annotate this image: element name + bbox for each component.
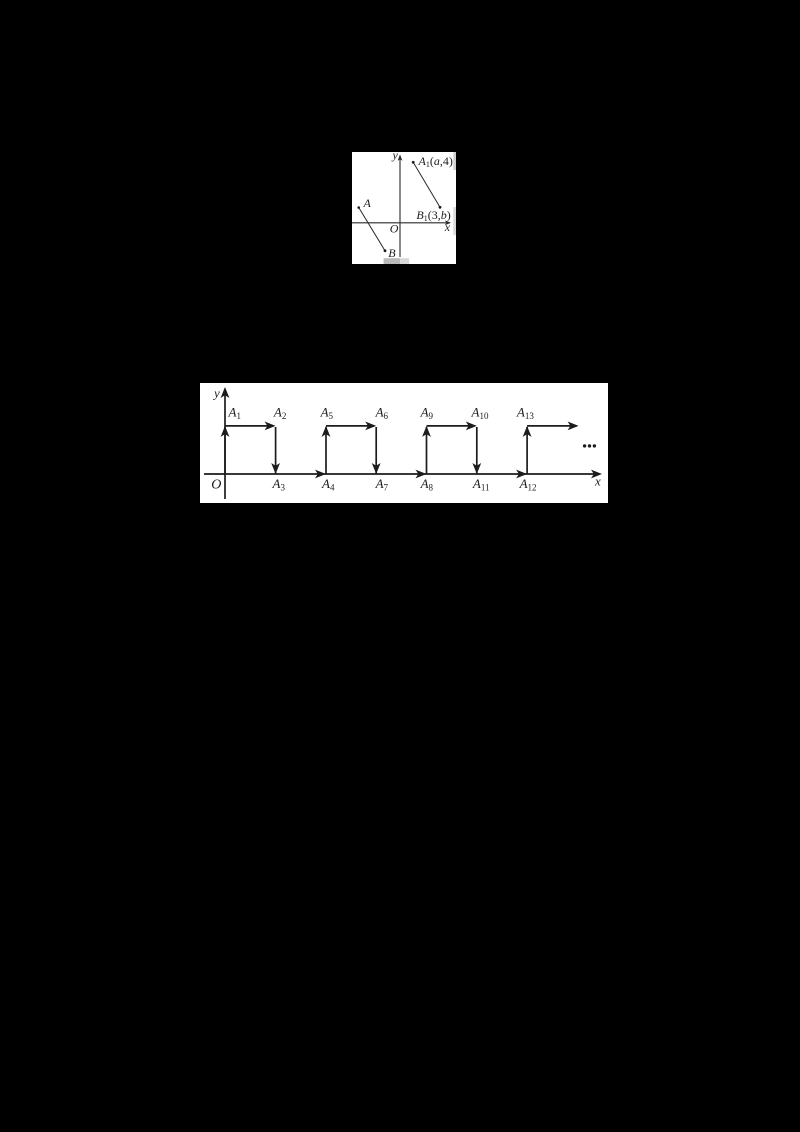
svg-text:O: O <box>390 221 399 235</box>
svg-text:A7: A7 <box>375 476 389 493</box>
svg-text:A13: A13 <box>516 405 534 422</box>
svg-text:x: x <box>594 474 601 489</box>
svg-text:y: y <box>212 386 220 401</box>
svg-text:A1(a,4): A1(a,4) <box>418 154 453 169</box>
svg-text:A4: A4 <box>321 476 335 493</box>
svg-text:A3: A3 <box>272 476 286 493</box>
svg-text:A10: A10 <box>471 405 489 422</box>
svg-text:A1: A1 <box>228 405 241 422</box>
svg-text:x: x <box>444 220 451 234</box>
svg-text:A6: A6 <box>375 405 389 422</box>
svg-text:y: y <box>392 152 399 162</box>
svg-text:O: O <box>211 478 221 493</box>
svg-text:B1(3,b): B1(3,b) <box>416 208 450 223</box>
svg-text:A2: A2 <box>273 405 286 422</box>
svg-text:A11: A11 <box>472 476 490 493</box>
svg-text:A9: A9 <box>420 405 434 422</box>
svg-text:A8: A8 <box>420 476 434 493</box>
svg-text:B: B <box>388 246 396 260</box>
svg-text:A5: A5 <box>320 405 334 422</box>
svg-text:A12: A12 <box>519 476 537 493</box>
svg-text:A: A <box>363 196 372 210</box>
